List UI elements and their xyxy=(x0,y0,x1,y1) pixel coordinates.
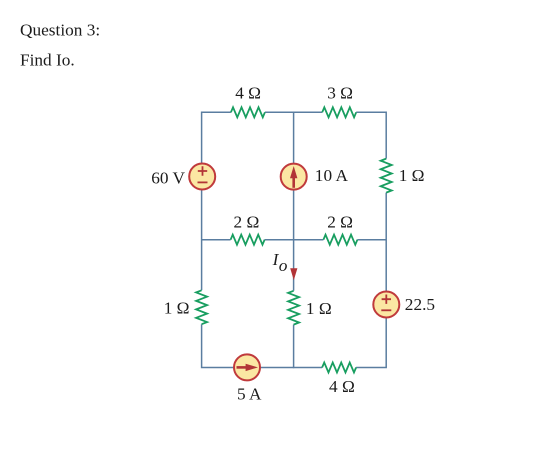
voltage source 22.5 circle xyxy=(373,292,399,318)
22.5 plus sign xyxy=(382,295,391,304)
current source 10A circle xyxy=(281,164,307,190)
60V plus sign xyxy=(198,166,207,175)
resistor 1ohm left vertical xyxy=(196,290,207,324)
svg-text:60 V: 60 V xyxy=(151,168,185,187)
svg-text:1 Ω: 1 Ω xyxy=(164,298,190,317)
wire middle-row left segment xyxy=(202,239,231,241)
current Io arrow head xyxy=(290,268,297,280)
60V minus sign xyxy=(198,181,208,183)
resistor 4ohm bottom xyxy=(322,363,356,373)
wire top-left corner and left rail upper xyxy=(202,112,231,290)
svg-text:Find Io.: Find Io. xyxy=(20,51,75,70)
svg-text:4 Ω: 4 Ω xyxy=(235,83,261,102)
wire middle-row right segment xyxy=(357,239,386,241)
svg-text:3 Ω: 3 Ω xyxy=(327,83,353,102)
5A arrow head xyxy=(246,364,258,371)
wire right rail below 1ohm and bottom-right corner xyxy=(356,193,386,368)
svg-text:22.5: 22.5 xyxy=(405,295,435,314)
wire middle rail upper xyxy=(293,112,295,290)
wire middle-row center segment xyxy=(265,239,324,241)
wire left rail bottom and bottom-left run xyxy=(202,324,323,367)
svg-text:1 Ω: 1 Ω xyxy=(399,166,425,185)
svg-text:4 Ω: 4 Ω xyxy=(329,377,355,396)
resistor 1ohm middle vertical xyxy=(288,291,299,325)
resistor 2ohm middle-left xyxy=(231,235,265,245)
svg-text:10 A: 10 A xyxy=(315,166,349,185)
svg-text:2 Ω: 2 Ω xyxy=(234,213,260,232)
resistor 4ohm top-left xyxy=(231,107,265,117)
voltage source 60V circle xyxy=(189,164,215,190)
svg-text:1 Ω: 1 Ω xyxy=(306,299,332,318)
svg-text:2 Ω: 2 Ω xyxy=(327,213,353,232)
10A arrow head xyxy=(290,166,297,178)
wire top-right corner and right rail above 1ohm xyxy=(356,112,386,158)
22.5 minus sign xyxy=(381,309,391,311)
svg-text:o: o xyxy=(279,256,288,275)
resistor 1ohm right vertical xyxy=(381,159,392,193)
wire top-middle segment xyxy=(265,111,322,113)
5A arrow stem xyxy=(237,366,249,369)
resistor 3ohm top-right xyxy=(322,107,356,117)
svg-text:5 A: 5 A xyxy=(237,385,262,404)
10A arrow stem xyxy=(292,176,295,188)
wire middle rail lower xyxy=(293,325,295,369)
current source 5A circle xyxy=(234,354,260,380)
svg-text:Question 3:: Question 3: xyxy=(20,21,100,40)
resistor 2ohm middle-right xyxy=(323,235,357,245)
